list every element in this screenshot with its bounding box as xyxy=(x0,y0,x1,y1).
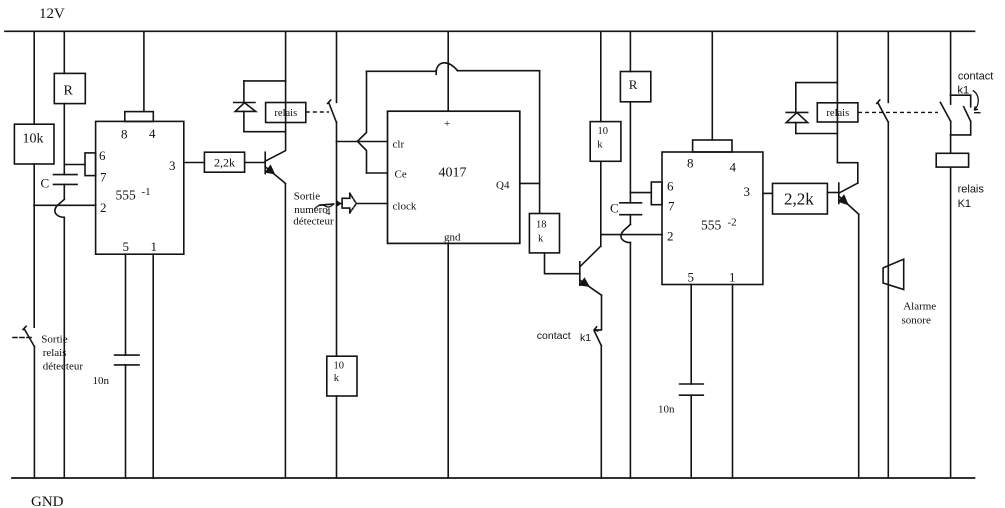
wire clr xyxy=(337,141,388,143)
speaker Alarme sonore xyxy=(883,259,904,289)
switch Sortie relais detecteur blade xyxy=(23,326,34,346)
wire rail to 555-2 top tab xyxy=(711,31,713,140)
svg-text:+: + xyxy=(444,118,450,130)
wire pin3 to resistor 2,2k right xyxy=(763,192,773,194)
annotation arrow from label to clock wire xyxy=(320,204,334,205)
wire R right to capacitor C right xyxy=(629,102,631,203)
relay switch 2 blade xyxy=(877,100,888,122)
IC 555-2 top tab xyxy=(693,140,732,152)
IC 555-1 top tab xyxy=(125,112,154,122)
wire Q3 collector jog to relais 2 xyxy=(837,163,857,183)
svg-text:6: 6 xyxy=(667,179,674,194)
node arrow Sortie numero (block arrow) xyxy=(342,193,350,213)
resistor R right xyxy=(620,72,650,102)
wire rail to 4017 plus xyxy=(447,31,449,111)
wire 10n to ground rail xyxy=(125,365,127,478)
capacitor C plates xyxy=(54,175,78,185)
ground rail xyxy=(12,477,975,479)
svg-text:4: 4 xyxy=(149,126,156,141)
wire Q4 node vertical to 18k xyxy=(539,71,541,214)
svg-text:5: 5 xyxy=(123,239,130,254)
svg-text:4017: 4017 xyxy=(439,166,467,181)
svg-text:contact: contact xyxy=(958,71,993,83)
svg-text:8: 8 xyxy=(687,156,694,171)
svg-text:R: R xyxy=(64,84,74,99)
wire pin5 to 10n xyxy=(125,254,127,355)
svg-text:12V: 12V xyxy=(39,6,65,22)
svg-text:2: 2 xyxy=(100,200,107,215)
wire pin 2 horizontal xyxy=(34,204,95,206)
switch dashed actuation line xyxy=(13,337,34,339)
svg-text:555: 555 xyxy=(701,218,722,233)
svg-text:k: k xyxy=(334,373,340,384)
wire pin5 to 10n right xyxy=(690,285,692,385)
svg-text:détecteur: détecteur xyxy=(293,216,334,228)
svg-text:GND: GND xyxy=(31,494,64,508)
wire hop over 4017 supply wire xyxy=(436,63,457,72)
svg-text:10n: 10n xyxy=(93,375,110,387)
svg-text:détecteur: détecteur xyxy=(43,361,84,373)
wire Ce branch vertical with crossover detour xyxy=(357,71,366,173)
contact k1 blade xyxy=(594,327,601,346)
wire contact k1 to ground rail xyxy=(600,346,602,478)
wire Q3 emitter to ground rail xyxy=(858,214,860,478)
wire 2,2k to transistor Q1 base xyxy=(245,162,266,164)
wire node to 555-2 pins 6/7 tab xyxy=(630,192,651,194)
svg-text:2,2k: 2,2k xyxy=(784,190,814,209)
resistor 18k xyxy=(529,214,559,253)
svg-text:sonore: sonore xyxy=(902,315,931,327)
svg-text:1: 1 xyxy=(729,270,736,285)
wire pin3 to resistor 2,2k xyxy=(184,162,205,164)
wire rail to 555-1 top tab xyxy=(143,31,145,111)
resistor 10k mid xyxy=(327,356,357,396)
IC 4017 body xyxy=(388,111,520,243)
resistor 2,2k xyxy=(204,152,244,172)
svg-text:10k: 10k xyxy=(23,132,44,147)
wire 4017 gnd to ground rail xyxy=(447,243,449,478)
wire clock stub xyxy=(337,203,343,205)
svg-text:gnd: gnd xyxy=(444,232,461,244)
svg-text:-2: -2 xyxy=(728,217,737,229)
svg-text:2,2k: 2,2k xyxy=(214,156,235,170)
svg-text:Ce: Ce xyxy=(395,169,407,181)
svg-text:3: 3 xyxy=(744,184,751,199)
contact K1 double switch xyxy=(951,94,971,96)
wire pin1 to ground rail xyxy=(152,254,154,478)
diode D1 flyback xyxy=(244,80,286,82)
svg-text:Q4: Q4 xyxy=(496,180,510,192)
svg-text:clock: clock xyxy=(393,201,417,213)
svg-text:4: 4 xyxy=(730,160,737,175)
wire rail to contact K1 xyxy=(950,31,952,95)
wire switch to ground rail xyxy=(33,347,35,479)
diode D2 flyback xyxy=(796,82,838,84)
wire rail to R xyxy=(63,31,65,73)
wire Q4 output xyxy=(520,182,540,184)
svg-text:7: 7 xyxy=(668,199,675,214)
wire 10n right to ground rail xyxy=(690,395,692,478)
relay coil relais 1 xyxy=(266,103,306,123)
wire C to hop xyxy=(63,184,65,199)
relay coil relais 2 xyxy=(817,103,858,122)
svg-text:6: 6 xyxy=(99,148,106,163)
wire 10k mid to ground rail xyxy=(336,396,338,478)
svg-text:10: 10 xyxy=(334,361,345,372)
wire rail to 10k right xyxy=(600,31,602,121)
capacitor C right plates xyxy=(620,203,642,215)
12V supply rail xyxy=(5,30,975,32)
transistor Q1 xyxy=(265,151,286,184)
wire node to switch xyxy=(33,205,35,327)
dash right of contact K1 xyxy=(974,112,981,114)
svg-text:7: 7 xyxy=(100,170,107,185)
svg-text:8: 8 xyxy=(121,127,128,142)
wire top link right segment xyxy=(458,70,540,72)
wire contact K1 to relay coil K1 xyxy=(950,135,952,153)
wire clock to 4017 xyxy=(356,203,387,205)
wire hop to ground rail xyxy=(63,217,65,478)
resistor 2,2k right xyxy=(773,183,828,214)
svg-text:555: 555 xyxy=(116,188,137,203)
svg-text:contact: contact xyxy=(537,330,571,342)
svg-text:clr: clr xyxy=(393,139,405,151)
svg-text:1: 1 xyxy=(151,239,158,254)
op-amp/IC 555-2 body xyxy=(662,152,763,285)
svg-text:k1: k1 xyxy=(580,332,591,344)
wire switch to 10k mid xyxy=(336,122,338,356)
dashed relay 1 actuation line xyxy=(306,111,329,113)
svg-text:C: C xyxy=(41,176,50,191)
wire rail through relais to Q1 collector xyxy=(285,31,287,151)
resistor 10k right xyxy=(590,122,621,162)
wire Q1 emitter to ground rail xyxy=(284,183,286,478)
wire 18k to Q2 base xyxy=(545,253,580,274)
annotation scribble over numero xyxy=(314,204,334,210)
svg-text:10: 10 xyxy=(598,126,609,137)
relay coil K1 xyxy=(936,153,968,167)
svg-text:-1: -1 xyxy=(142,186,151,198)
svg-text:k: k xyxy=(538,234,544,245)
svg-text:18: 18 xyxy=(536,220,547,231)
wire pin1 right to ground rail xyxy=(732,285,734,479)
capacitor 10n right plates xyxy=(680,384,704,395)
svg-text:Sortie: Sortie xyxy=(294,191,320,203)
wire hop to ground rail right xyxy=(629,243,631,478)
op-amp/IC 555-1 body xyxy=(96,121,184,254)
resistor R xyxy=(54,73,85,103)
IC 555-1 left tab pins 6-7 xyxy=(85,153,96,176)
wire C right to hop xyxy=(629,215,631,225)
svg-text:2: 2 xyxy=(667,229,674,244)
transistor Q2 xyxy=(579,246,602,295)
svg-text:relais: relais xyxy=(958,184,985,196)
wire R to capacitor C xyxy=(63,104,65,175)
svg-text:numéro: numéro xyxy=(294,204,328,216)
relay switch 1 blade xyxy=(328,100,337,122)
svg-text:k: k xyxy=(597,140,603,151)
wire rail to 10k xyxy=(33,31,35,124)
annotation curl arrow at contact K1 xyxy=(973,91,978,111)
transistor Q3 xyxy=(838,183,859,214)
wire 2,2k right to Q3 base xyxy=(827,192,838,194)
wire hop over pin2 wire xyxy=(55,199,64,217)
svg-text:Alarme: Alarme xyxy=(903,301,936,313)
wire rail to relay switch 2 xyxy=(887,31,889,102)
wire rail through relais 2 to jog xyxy=(836,31,838,162)
svg-text:K1: K1 xyxy=(958,198,971,210)
wire 10k right to Q2 collector xyxy=(600,161,602,246)
resistor 10k xyxy=(14,124,54,164)
IC 555-2 left tab pins 6-7 xyxy=(651,182,662,205)
dashed relay 2 actuation line xyxy=(858,111,938,113)
wire pin2 of 555-2 xyxy=(601,234,662,236)
wire 10k to node pin2 xyxy=(33,164,35,205)
wire Ce horizontal xyxy=(367,172,388,174)
wire node to 555-1 pins 6/7 tab xyxy=(64,164,85,166)
capacitor 10n plates xyxy=(115,355,139,365)
wire relay K1 to ground rail xyxy=(950,167,952,478)
wire rail to R right xyxy=(629,31,631,71)
svg-text:R: R xyxy=(629,77,638,92)
wire top link left segment xyxy=(367,70,437,74)
svg-text:10n: 10n xyxy=(658,404,675,416)
svg-text:relais: relais xyxy=(43,347,67,359)
svg-text:Sortie: Sortie xyxy=(41,334,67,346)
svg-text:3: 3 xyxy=(169,158,176,173)
svg-text:5: 5 xyxy=(688,270,695,285)
wire hop over pin2 wire right xyxy=(621,224,630,242)
svg-text:C: C xyxy=(610,201,619,216)
svg-text:k1: k1 xyxy=(958,85,970,97)
wire switch 2 through speaker to ground rail xyxy=(887,122,889,478)
wire Q2 emitter to contact k1 xyxy=(594,295,601,330)
wire rail to relay switch 1 xyxy=(336,31,338,102)
